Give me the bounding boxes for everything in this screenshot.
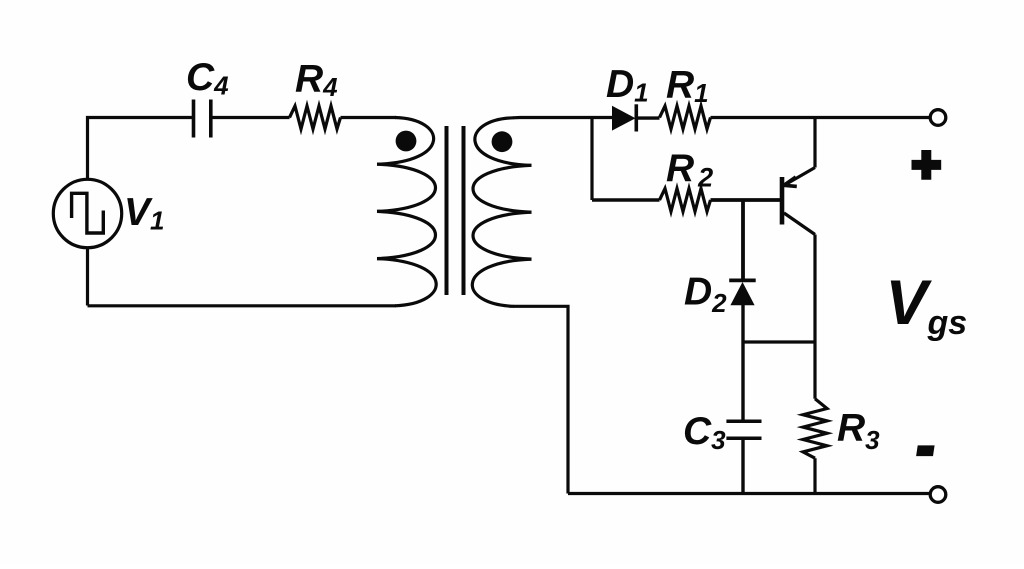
diode D2 triangle (points up) [730,282,754,305]
transistor Q1 emitter arrow (PNP, points into base) [784,177,797,186]
wire C3 bottom to rail [741,438,744,493]
wire R4 to transformer primary [341,116,397,119]
diode D1 cathode bar [634,104,638,131]
transformer core lines [447,126,464,295]
wire D1 to R1 [636,116,660,119]
wire from base junction down to D2 [741,200,745,281]
svg-text:R1: R1 [666,64,709,109]
transformer secondary winding loop 3 [473,212,532,259]
capacitor C3 plates [726,421,761,438]
V1 pulse waveform symbol [72,193,104,233]
svg-text:C3: C3 [683,410,726,455]
diode D1 triangle [612,106,636,131]
diode D2 cathode bar [729,278,756,282]
wire D2 to link row and C3 [741,305,744,421]
svg-text:D2: D2 [684,271,727,319]
svg-text:C4: C4 [186,56,229,101]
svg-text:V1: V1 [124,191,164,236]
transformer primary phase dot [396,131,417,152]
resistor R3 [803,399,827,458]
terminal - circle [930,487,946,503]
transformer secondary phase dot [492,131,513,152]
terminal + circle [930,110,946,126]
wire top-left from V1 top to C4 [88,118,194,180]
plus sign [912,150,942,180]
transistor Q1 emitter line [784,168,815,186]
wire R2 to transistor base [711,198,783,202]
svg-text:R3: R3 [837,407,880,456]
svg-text:R4: R4 [295,58,338,103]
resistor R2 [660,189,711,212]
transformer primary winding loop 3 [377,211,436,258]
wire link row between D2 column and R3 column [743,340,815,343]
wire junction drop from top rail to R2 row [590,118,593,201]
transformer primary winding loop 4 [377,259,436,306]
transformer secondary winding loop 1 [475,118,532,166]
voltage source V1 circle [53,179,121,247]
transistor Q1 base bar [780,177,785,225]
wire secondary bottom exit [513,306,568,493]
transformer primary winding loop 1 [377,118,434,165]
resistor R4 [290,106,341,129]
transistor Q1 collector line [784,213,815,235]
transformer primary winding loop 2 [377,164,436,211]
wire bottom rail to - terminal [568,492,930,495]
resistor R1 [660,106,711,129]
svg-text:D1: D1 [606,63,649,108]
capacitor C4 plates [194,100,211,138]
wire secondary top to D1 [513,116,612,120]
transformer secondary winding loop 4 [472,259,531,306]
wire R2 row left [592,198,660,201]
svg-text:R2: R2 [666,147,713,193]
wire primary bottom rail [88,304,397,307]
transistor Q1 emitter vertical wire to top rail [813,118,816,168]
wire R1 to + terminal [711,116,930,119]
transistor Q1 collector vertical wire down [813,235,816,399]
wire C4 to R4 [211,116,290,119]
wire R3 bottom to rail [813,458,816,493]
svg-text:Vgs: Vgs [886,268,968,342]
minus sign [916,445,935,456]
wire V1 bottom to primary bottom rail [86,248,89,306]
transformer secondary winding loop 2 [473,165,532,212]
